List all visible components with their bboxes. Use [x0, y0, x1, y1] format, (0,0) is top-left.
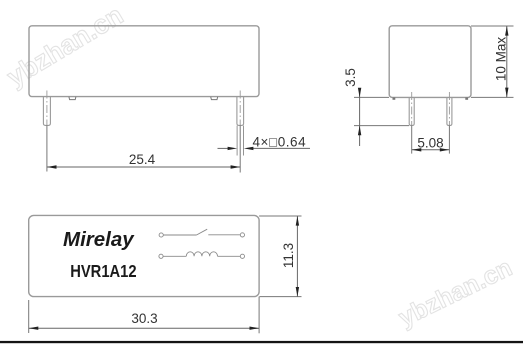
switch left lead wire: [163, 234, 196, 236]
coil (inductor) symbol: [186, 252, 217, 257]
coil right lead wire: [218, 255, 241, 257]
extension line body bottom (left of side view): [354, 96, 389, 98]
dimension line 11.3: [296, 216, 298, 297]
extension line pin width left (0.64): [236, 126, 238, 156]
switch contact symbol: left terminal circle: [159, 233, 163, 237]
svg-text:5.08: 5.08: [417, 135, 443, 150]
switch right lead wire: [208, 234, 240, 236]
extension line left pin: [46, 125, 48, 171]
standoff bump right: [211, 97, 218, 100]
relay body front view: [29, 26, 259, 97]
pin left centerline (side): [411, 92, 413, 125]
svg-text:25.4: 25.4: [129, 152, 156, 167]
dimension line 5.08: [412, 149, 450, 151]
relay body side view: [389, 26, 471, 98]
svg-text:3.5: 3.5: [343, 68, 358, 87]
svg-text:30.3: 30.3: [131, 311, 157, 326]
coil left terminal circle: [159, 254, 163, 258]
svg-text:4×□0.64: 4×□0.64: [253, 135, 307, 150]
switch right terminal circle: [240, 233, 244, 237]
standoff nub right (side view): [465, 97, 468, 99]
extension line body right (30.3): [258, 297, 260, 334]
pin left centerline: [46, 91, 48, 126]
svg-text:Mirelay: Mirelay: [63, 228, 135, 251]
dimension line 25.4: [47, 166, 240, 168]
relay body bottom view: [29, 215, 259, 296]
page bottom rule: [0, 341, 523, 343]
pin right centerline: [239, 91, 241, 126]
pin right (front view): [237, 97, 244, 126]
svg-text:10 Max: 10 Max: [494, 37, 509, 82]
coil right terminal circle: [240, 254, 244, 258]
extension line pin width right (0.64): [243, 126, 245, 156]
dimension 10 Max vertical line: [506, 26, 508, 97]
standoff nub left (side view): [393, 97, 396, 99]
pin right (side view): [447, 97, 452, 125]
extension line pin2 (5.08): [448, 125, 450, 153]
svg-text:HVR1A12: HVR1A12: [70, 261, 136, 281]
svg-text:ybzhan.cn: ybzhan.cn: [394, 254, 516, 333]
extension line pin bottom (left of side view): [354, 125, 409, 127]
extension line body top (11.3): [259, 215, 301, 217]
extension line body bottom (right of side view): [471, 96, 514, 98]
standoff bump left: [69, 97, 76, 100]
watermark ybzhan.cn top-left: [2, 0, 129, 92]
pin left (front view): [43, 97, 50, 126]
pin left (side view): [409, 97, 414, 125]
leader 4x0.64 left arrow: [218, 147, 229, 149]
leader 4x0.64 right arrow: [253, 147, 310, 149]
dimension line 30.3: [29, 327, 259, 329]
svg-text:11.3: 11.3: [281, 243, 296, 268]
pin right centerline (side): [448, 92, 450, 125]
svg-text:ybzhan.cn: ybzhan.cn: [2, 0, 129, 92]
watermark ybzhan.cn bottom-right: [394, 254, 516, 333]
extension line body bottom (11.3): [260, 296, 302, 298]
coil left lead wire: [163, 255, 186, 257]
switch blade: [197, 229, 208, 235]
extension line pin1 (5.08): [411, 125, 413, 153]
extension line body top (right of side view): [471, 25, 514, 27]
extension line body left (30.3): [28, 300, 30, 333]
dimension 3.5 vertical line: [359, 89, 361, 146]
extension line right pin: [239, 125, 241, 172]
